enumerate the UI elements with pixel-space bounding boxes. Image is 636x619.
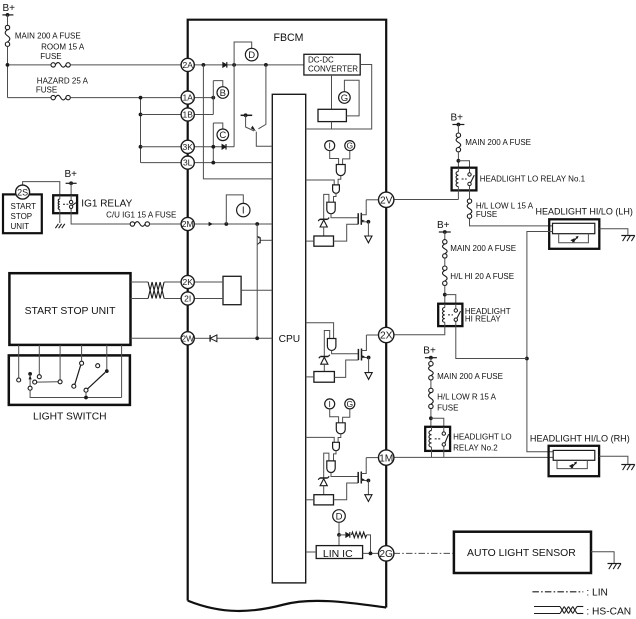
wire 2K into transceiver bbox=[194, 281, 223, 283]
wire CPU to gate2 (low beam right) bbox=[306, 437, 335, 442]
switch terminal 2 bbox=[37, 375, 41, 379]
wire 2I to start stop unit bbox=[131, 298, 149, 300]
switch B pivot bbox=[72, 384, 76, 388]
wire DC-DC right loop bbox=[306, 65, 372, 130]
fuse C/U IG1 15 A FUSE bbox=[106, 211, 176, 227]
switch terminal pair link bbox=[37, 381, 58, 383]
wire D to junction bbox=[338, 522, 340, 535]
resistor zigzag LIN bbox=[352, 532, 367, 538]
wire to ROOM fuse bbox=[10, 64, 51, 66]
wire drain to pin 1M (low beam right) bbox=[366, 457, 379, 459]
wire pivot A to bottom bus bbox=[30, 390, 122, 397]
svg-text:2V: 2V bbox=[380, 195, 393, 206]
wire switch drop 2 bbox=[38, 345, 40, 374]
svg-text:HEADLIGHT HI/LO (LH): HEADLIGHT HI/LO (LH) bbox=[536, 207, 633, 217]
wire FET gate pulldown (low beam left) bbox=[334, 224, 359, 241]
wire CPU to gate2 (low beam left) bbox=[306, 180, 335, 185]
wire Q1 emitter to CPU bbox=[256, 132, 272, 147]
connector pin 2G bbox=[379, 546, 394, 561]
connector pin 3K bbox=[181, 140, 194, 153]
connector pin 2K bbox=[181, 275, 194, 288]
wire G to gate (low beam left) bbox=[343, 151, 350, 165]
svg-text:1A: 1A bbox=[182, 93, 193, 103]
node C dimmer signal bbox=[217, 129, 229, 141]
svg-text:HEADLIGHT LO: HEADLIGHT LO bbox=[453, 433, 512, 442]
wire LIN 2G to sensor bbox=[394, 552, 454, 554]
logic gate 2 (low beam right) bbox=[333, 442, 340, 450]
ground IG1 relay bbox=[55, 224, 64, 228]
svg-text:START STOP UNIT: START STOP UNIT bbox=[25, 306, 116, 317]
node I input (low beam left) bbox=[325, 141, 335, 151]
node B+ headlight hi bbox=[437, 220, 451, 234]
svg-text:FBCM: FBCM bbox=[273, 32, 303, 44]
node relay feed junction (hi) bbox=[443, 293, 447, 297]
wire LIN IC to pin 2G bbox=[363, 552, 379, 554]
wire hook G to resistor bbox=[344, 80, 359, 116]
svg-text:DC-DC: DC-DC bbox=[308, 56, 334, 65]
MOSFET driver (low beam left) bbox=[358, 200, 372, 243]
connector pin 1M bbox=[379, 450, 394, 465]
wire RH lamp to ground bbox=[599, 456, 628, 464]
node 3K stub junction bbox=[211, 145, 215, 149]
svg-text:G: G bbox=[341, 93, 348, 104]
zener diode (high beam) bbox=[319, 355, 330, 365]
DC-DC CONVERTER box bbox=[304, 54, 360, 75]
svg-text:D: D bbox=[336, 511, 343, 522]
headlight hi/lo RH box bbox=[549, 446, 600, 476]
node 2A junction b bbox=[232, 63, 236, 67]
bulb LH bbox=[553, 223, 595, 233]
logic gate 1 (low beam right) bbox=[336, 423, 345, 434]
svg-text:START: START bbox=[11, 202, 37, 211]
svg-text:FUSE: FUSE bbox=[437, 404, 458, 413]
svg-text:2M: 2M bbox=[182, 219, 194, 229]
wire C-group tie bbox=[212, 123, 214, 163]
wire zener branch (high beam) bbox=[324, 331, 329, 357]
node G input (low beam right) bbox=[345, 399, 355, 409]
svg-text:LIGHT SWITCH: LIGHT SWITCH bbox=[33, 412, 107, 423]
wire B+ to main fuse (lo1) bbox=[457, 125, 459, 133]
svg-text:B+: B+ bbox=[423, 346, 436, 357]
wire hook to symbol D bbox=[234, 42, 252, 65]
wire relay contact down (lo2) bbox=[443, 451, 445, 458]
svg-text:I: I bbox=[329, 141, 331, 151]
wire fuse to LH lamp bbox=[470, 219, 553, 226]
svg-text:MAIN 200 A FUSE: MAIN 200 A FUSE bbox=[450, 244, 516, 253]
svg-text:STOP: STOP bbox=[11, 212, 33, 221]
wire branch to contact (lo1) bbox=[458, 161, 469, 168]
bulb LH bracket bbox=[559, 234, 589, 243]
wire 3L to CPU bbox=[194, 162, 272, 164]
wire high beam feed to LH lamp bbox=[527, 232, 553, 452]
wire hook to symbol I bbox=[226, 195, 243, 224]
label headlight hi/lo RH bbox=[530, 433, 630, 443]
diode on 2W wire bbox=[210, 335, 217, 342]
wire gate2 to gate3 (low beam left) bbox=[334, 193, 337, 202]
node I input (low beam right) bbox=[325, 399, 335, 409]
svg-text:C/U IG1 15 A FUSE: C/U IG1 15 A FUSE bbox=[106, 211, 176, 220]
switch terminal 3a bbox=[33, 380, 37, 384]
wire switch drop 5 bbox=[106, 345, 108, 371]
svg-text:G: G bbox=[346, 141, 353, 151]
wire switch drop 3 bbox=[59, 345, 61, 379]
switch C lever bbox=[88, 373, 106, 389]
node relay feed junction (lo2) bbox=[429, 416, 433, 420]
node I ignition monitor bbox=[237, 203, 250, 216]
wire gate to FET gate (high beam) bbox=[332, 351, 359, 354]
wire DC-DC bottom to resistor bbox=[331, 75, 333, 109]
svg-text:2I: 2I bbox=[184, 294, 191, 304]
connector pin 3L bbox=[181, 156, 194, 169]
wire resistor to loop bbox=[331, 122, 333, 129]
wire FET gate pulldown (high beam) bbox=[334, 360, 358, 377]
wire LH lamp to ground bbox=[599, 229, 628, 236]
svg-text:H/L HI 20 A FUSE: H/L HI 20 A FUSE bbox=[450, 272, 514, 281]
connector pin 2X bbox=[379, 327, 394, 342]
auto light sensor box bbox=[454, 532, 591, 573]
logic gate 3 (low beam right) bbox=[327, 461, 335, 473]
wire 2A to CPU bbox=[203, 65, 272, 179]
bulb RH bbox=[553, 450, 595, 460]
node 2A junction c bbox=[264, 63, 268, 67]
node D ignition signal bbox=[245, 48, 258, 61]
svg-text:IG1 RELAY: IG1 RELAY bbox=[81, 199, 132, 210]
wire gate3 to FET gate (low beam left) bbox=[331, 214, 358, 218]
connector pin 2A bbox=[181, 58, 194, 71]
svg-text:I: I bbox=[242, 206, 245, 217]
switch C common node bbox=[105, 369, 109, 373]
svg-text:HEADLIGHT HI/LO (RH): HEADLIGHT HI/LO (RH) bbox=[530, 433, 630, 443]
relay HEADLIGHT LO RELAY No.2 bbox=[425, 427, 511, 453]
bulb LH igniter symbol bbox=[570, 236, 578, 243]
wire main fuse down to junction bbox=[7, 47, 9, 98]
wire G to gate (low beam right) bbox=[343, 409, 350, 423]
legend HS-CAN symbol bbox=[534, 607, 631, 618]
wire gate1 to gate2 (low beam left) bbox=[338, 176, 341, 185]
svg-text:: LIN: : LIN bbox=[586, 588, 608, 599]
svg-text:ROOM 15 A: ROOM 15 A bbox=[41, 42, 85, 51]
wire B+ to main fuse (lo2) bbox=[430, 358, 432, 362]
wire branch to contact (lo2) bbox=[431, 418, 444, 427]
wire twisted pair to pin 2I bbox=[164, 298, 181, 300]
MOSFET driver (low beam right) bbox=[358, 458, 372, 502]
MOSFET driver (high beam) bbox=[358, 335, 372, 379]
node junction on 1B line bbox=[139, 113, 143, 117]
svg-text:FUSE: FUSE bbox=[476, 210, 497, 219]
wire zener branch (low beam left) bbox=[324, 194, 329, 218]
svg-text:1B: 1B bbox=[182, 110, 193, 120]
wire 2A rail bbox=[194, 64, 304, 66]
wire fuse to relay (hi) bbox=[444, 286, 446, 304]
wire fuse to pin 2M bbox=[150, 223, 182, 225]
wire CPU to gate (high beam) bbox=[306, 323, 334, 339]
wire IG1 relay to C/U IG1 fuse bbox=[71, 213, 130, 224]
wire FET gate pulldown (low beam right) bbox=[334, 483, 359, 500]
switch pivot A bbox=[28, 386, 32, 390]
light switch box bbox=[9, 355, 130, 422]
wire B+ into IG1 relay bbox=[70, 183, 72, 195]
node 2M junction a bbox=[224, 222, 228, 226]
svg-text:I: I bbox=[329, 399, 331, 409]
LIN IC box bbox=[316, 546, 362, 560]
svg-text:B+: B+ bbox=[437, 220, 450, 231]
svg-text:HEADLIGHT LO RELAY No.1: HEADLIGHT LO RELAY No.1 bbox=[480, 175, 586, 184]
legend LIN line bbox=[532, 588, 608, 599]
zener diode (low beam left) bbox=[318, 218, 329, 228]
wire 2M to CPU bbox=[194, 223, 272, 225]
bulb RH igniter symbol bbox=[569, 462, 577, 469]
wire relay contact to fuse (lo1) bbox=[469, 190, 471, 198]
wire zener to resistor (low beam left) bbox=[323, 227, 325, 236]
fusible link MAIN 200 A FUSE bbox=[5, 25, 81, 46]
wire transceiver to CPU bbox=[241, 289, 272, 291]
svg-text:LIN IC: LIN IC bbox=[323, 548, 353, 560]
svg-text:2W: 2W bbox=[181, 333, 194, 343]
relay HEADLIGHT HI RELAY bbox=[438, 304, 511, 326]
svg-text:H/L LOW R 15 A: H/L LOW R 15 A bbox=[437, 393, 497, 402]
node D signal (LIN) bbox=[333, 510, 346, 523]
switch C spare terminal bbox=[96, 364, 100, 368]
wire HAZARD fuse to pin 1A bbox=[70, 97, 181, 99]
wire 1A stub bbox=[194, 97, 213, 99]
ground LH lamp bbox=[621, 236, 635, 242]
wire to pin 3K bbox=[141, 146, 182, 148]
node junction on 1A line bbox=[139, 96, 143, 100]
node 2A junction a bbox=[202, 63, 206, 67]
CPU box bbox=[272, 94, 305, 583]
svg-text:B+: B+ bbox=[65, 169, 78, 180]
resistor box (low beam right) bbox=[314, 495, 334, 505]
svg-text:HAZARD 25 A: HAZARD 25 A bbox=[37, 76, 89, 85]
bulb RH bracket bbox=[557, 460, 587, 468]
svg-text:D: D bbox=[248, 50, 255, 61]
svg-text:MAIN 200 A FUSE: MAIN 200 A FUSE bbox=[437, 372, 503, 381]
connector pin 2V bbox=[379, 192, 394, 207]
node junction above LIN IC bbox=[337, 533, 341, 537]
wire CPU to LIN IC bbox=[306, 551, 317, 553]
FBCM module box bbox=[188, 20, 387, 611]
logic gate 3 (low beam left) bbox=[327, 202, 335, 214]
node B headlight switch signal bbox=[217, 87, 229, 99]
svg-text:HI RELAY: HI RELAY bbox=[465, 315, 502, 324]
svg-text:2A: 2A bbox=[182, 60, 193, 70]
node relay feed junction (lo1) bbox=[457, 159, 461, 163]
wire resistor to 2G node bbox=[367, 535, 371, 554]
wire relay contact to junction bbox=[456, 326, 527, 358]
node junction to ROOM fuse bbox=[6, 63, 10, 67]
switch terminal 1 bbox=[17, 378, 21, 382]
node B+ headlight lo 1 bbox=[451, 113, 465, 127]
wire 2K to start stop unit bbox=[131, 281, 149, 283]
wire IG1 coil to ground bbox=[59, 213, 61, 223]
wire B-group tie bbox=[212, 81, 214, 115]
start stop unit box bbox=[9, 273, 130, 345]
node 2M junction b bbox=[255, 222, 259, 226]
fusible link MAIN 200 A FUSE (lo1) bbox=[456, 133, 531, 152]
wire between fuses (hi) bbox=[444, 258, 446, 266]
svg-text:3L: 3L bbox=[183, 158, 193, 168]
svg-text:CPU: CPU bbox=[279, 334, 301, 345]
label headlight hi/lo LH bbox=[536, 207, 633, 217]
wire to HAZARD fuse bbox=[8, 97, 51, 99]
wire relay coil down (lo2) bbox=[431, 451, 433, 458]
wire I to gate (low beam left) bbox=[330, 151, 339, 165]
node 3L junction bbox=[211, 161, 215, 165]
diode on 3K rail bbox=[222, 144, 226, 150]
svg-text:MAIN 200 A FUSE: MAIN 200 A FUSE bbox=[15, 32, 81, 41]
switch B terminal top bbox=[80, 361, 84, 365]
switch lever A with arrow bbox=[29, 375, 32, 386]
node G generator signal bbox=[339, 92, 351, 104]
connector pin 2M bbox=[181, 217, 194, 230]
logic gate (high beam) bbox=[327, 339, 336, 351]
fuse ROOM 15 A FUSE bbox=[40, 42, 85, 67]
resistor box (low beam left) bbox=[314, 236, 334, 246]
svg-text:AUTO LIGHT SENSOR: AUTO LIGHT SENSOR bbox=[467, 548, 576, 559]
node G input (low beam left) bbox=[345, 141, 355, 151]
wire start stop unit to pin 2W bbox=[131, 337, 182, 339]
wire 3K diode to junction bbox=[0, 0, 1, 1]
wire switch drop 4 bbox=[81, 345, 83, 361]
wire 1B stub bbox=[194, 114, 213, 116]
connector 2S bbox=[16, 185, 30, 199]
svg-text:FUSE: FUSE bbox=[40, 52, 61, 61]
node light switch common bbox=[28, 372, 32, 376]
wire B+ down to main fuse bbox=[7, 15, 9, 25]
ground RH lamp bbox=[621, 465, 635, 471]
wire 3K stub bbox=[194, 146, 234, 148]
twisted pair HS-CAN to 2K/2I bbox=[148, 282, 164, 299]
wire tie bus 1A-1B-3K-3L bbox=[140, 98, 142, 163]
node high beam junction bbox=[525, 357, 529, 361]
fusible link MAIN 200 A FUSE (hi) bbox=[443, 240, 517, 259]
fuse HAZARD 25 A FUSE bbox=[36, 76, 89, 99]
svg-text:: HS-CAN: : HS-CAN bbox=[586, 607, 631, 618]
wire gate2 to gate3 (low beam right) bbox=[334, 451, 337, 461]
connector pin 2I bbox=[181, 292, 194, 305]
switch B lever bbox=[75, 365, 81, 384]
wire switch C pivot to bottom bus bbox=[85, 392, 87, 397]
wire relay coil to pin 2X bbox=[394, 326, 445, 335]
resistor box (high beam) bbox=[314, 372, 335, 383]
transistor Q2 bbox=[257, 236, 272, 244]
wire I to gate (low beam right) bbox=[330, 409, 339, 423]
switch terminal 3b bbox=[58, 380, 62, 384]
headlight hi/lo LH box bbox=[549, 219, 599, 249]
svg-text:2G: 2G bbox=[379, 549, 393, 560]
diode on 2A rail bbox=[223, 62, 227, 68]
fusible link MAIN 200 A FUSE (lo2) bbox=[429, 362, 503, 382]
wire zener branch (low beam right) bbox=[324, 453, 329, 477]
wire twisted pair to pin 2K bbox=[164, 281, 181, 283]
transistor Q1 leads bbox=[246, 65, 266, 131]
arrow on 2M wire bbox=[209, 222, 213, 227]
wire relay coil to 2V line bbox=[457, 190, 459, 199]
wire fuse to relay (lo1) bbox=[457, 152, 459, 168]
wire sensor to ground bbox=[591, 552, 614, 564]
zener diode (low beam right) bbox=[318, 476, 329, 486]
wire 2I into transceiver bbox=[194, 298, 223, 300]
node B+ headlight lo 2 bbox=[423, 346, 437, 360]
wire zener to resistor (high beam) bbox=[323, 364, 325, 371]
wire drain to pin 2V (low beam left) bbox=[366, 199, 379, 201]
node B+ for IG1 relay bbox=[65, 169, 78, 185]
connector pin 2W bbox=[181, 332, 194, 345]
logic gate 2 (low beam left) bbox=[333, 185, 340, 193]
ground auto light sensor bbox=[608, 564, 622, 570]
node junction on 3K line bbox=[139, 145, 143, 149]
svg-text:G: G bbox=[346, 399, 353, 409]
wire switch drop 1 bbox=[18, 345, 20, 378]
wire 2W to CPU bbox=[194, 337, 272, 339]
wire 2A rail into DC-DC converter bbox=[0, 0, 1, 1]
wire 2S to IG1 relay bbox=[23, 182, 60, 196]
wire junction to diode bbox=[339, 534, 345, 536]
relay HEADLIGHT LO RELAY No.1 bbox=[452, 168, 586, 191]
wire ROOM fuse to pin 2A bbox=[70, 64, 181, 66]
wire pin 2V to relay coil bbox=[394, 199, 459, 201]
svg-text:RELAY No.2: RELAY No.2 bbox=[453, 444, 498, 453]
svg-text:2X: 2X bbox=[380, 331, 393, 342]
wire to pin 1B bbox=[141, 114, 182, 116]
wire drain to pin 2X (high beam) bbox=[366, 334, 379, 336]
wire gate3 to FET gate (low beam right) bbox=[331, 473, 358, 477]
svg-text:B+: B+ bbox=[3, 3, 16, 14]
logic gate 1 (low beam left) bbox=[336, 165, 345, 176]
svg-text:2K: 2K bbox=[182, 277, 193, 287]
wire hook to symbol B bbox=[213, 81, 223, 87]
node 2W junction bbox=[255, 336, 259, 340]
svg-text:MAIN 200 A FUSE: MAIN 200 A FUSE bbox=[465, 138, 531, 147]
svg-text:UNIT: UNIT bbox=[11, 222, 30, 231]
wire switch drop 6 (return) bbox=[121, 345, 123, 398]
node 1A stub junction bbox=[211, 96, 215, 100]
CAN transceiver box bbox=[223, 276, 241, 304]
fuse H/L LOW R 15 A bbox=[429, 388, 497, 412]
wire 2A junction down to 3K diode bbox=[233, 65, 235, 147]
wire gate1 to gate2 (low beam right) bbox=[338, 434, 341, 442]
fuse H/L LOW L 15 A bbox=[467, 199, 534, 219]
node 2G junction bbox=[369, 552, 373, 556]
svg-text:C: C bbox=[219, 130, 226, 141]
wire pin 1M to RH lamp bbox=[394, 456, 554, 458]
wire zener to resistor (low beam right) bbox=[323, 486, 325, 495]
wire to pin 3L bbox=[141, 162, 182, 164]
switch C pivot bbox=[84, 388, 88, 392]
wire CPU to resistor (high beam) bbox=[306, 376, 314, 378]
wire branch to contact (hi) bbox=[445, 295, 456, 304]
node B+ battery feed (top left) bbox=[2, 3, 15, 17]
wire junction into LIN IC bbox=[338, 535, 340, 546]
connector pin 1B bbox=[181, 108, 194, 121]
diode pull-up LIN bbox=[346, 532, 350, 538]
fuse H/L HI 20 A bbox=[443, 266, 515, 285]
wire CPU to resistor (low beam left) bbox=[306, 240, 314, 242]
transistor Q1 base bar bbox=[241, 113, 253, 117]
wire 2M junction down to 2W bbox=[256, 224, 258, 338]
wire fuse to relay (lo2) bbox=[430, 409, 432, 427]
svg-text:1M: 1M bbox=[379, 453, 393, 464]
start stop unit (small) box bbox=[3, 194, 42, 233]
svg-text:FUSE: FUSE bbox=[36, 86, 57, 95]
svg-text:B+: B+ bbox=[451, 113, 464, 124]
resistor box below DC-DC bbox=[318, 109, 346, 121]
svg-text:2S: 2S bbox=[17, 187, 28, 197]
svg-text:B: B bbox=[220, 88, 226, 99]
wire B+ to main fuse (hi) bbox=[444, 232, 446, 240]
relay IG1 RELAY bbox=[53, 195, 132, 213]
connector pin 1A bbox=[181, 91, 194, 104]
